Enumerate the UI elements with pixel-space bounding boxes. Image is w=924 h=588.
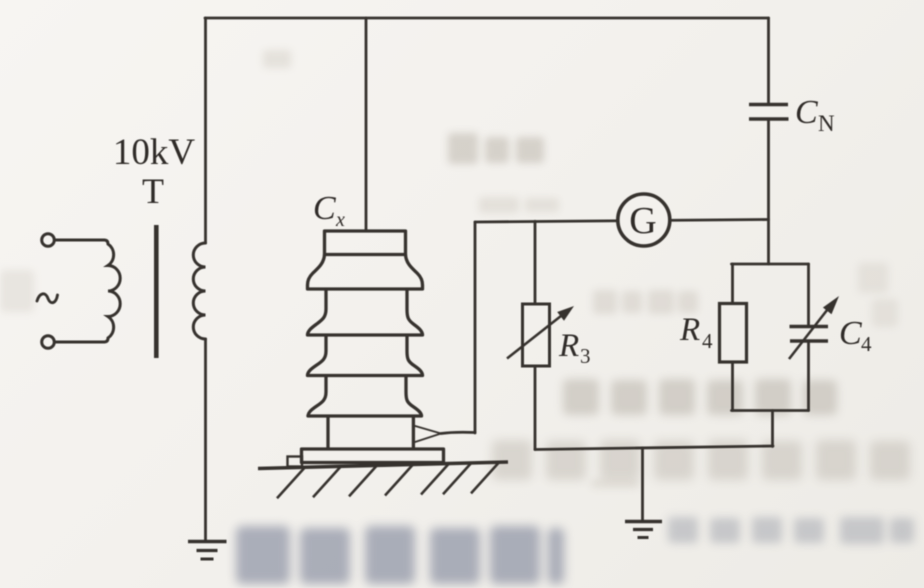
wire: CN bottom plate down through G-wire junction to R4C4 box top — [767, 121, 770, 265]
primary winding — [104, 240, 120, 342]
svg-text:4: 4 — [861, 332, 872, 356]
wire: ground stub below bottom bus — [641, 448, 644, 521]
C4 arrow — [789, 305, 831, 359]
resistor R4 — [720, 304, 747, 363]
wire: right vertical top bus to CN top plate — [767, 18, 770, 103]
svg-text:R: R — [679, 312, 700, 348]
svg-text:N: N — [818, 111, 835, 136]
terminal lower (circle) — [42, 336, 55, 349]
capacitor CN — [749, 105, 789, 120]
wire: bottom bus — [535, 446, 773, 450]
wire: drop from top bus to Cx bushing cap — [365, 18, 368, 231]
ground plane (hatched earth under bushing) — [258, 462, 508, 498]
bushing neck — [326, 418, 329, 450]
wire: transformer secondary to left ground — [204, 339, 207, 541]
bushing base plate — [302, 449, 444, 463]
wire: top bus from left vertical to CN branch — [205, 17, 769, 20]
tap electrode arrow — [414, 426, 442, 443]
test object Cx: bushing — [302, 231, 444, 463]
resistor R3 (variable) — [523, 304, 550, 366]
wire: left vertical from top bus down to transformer secondary — [204, 18, 207, 243]
R3 arrow — [507, 312, 566, 359]
svg-text:4: 4 — [702, 329, 713, 353]
shed 4 — [308, 376, 422, 417]
transformer core — [154, 225, 159, 358]
wire: upper primary lead — [55, 239, 105, 242]
AC source tilde — [37, 294, 58, 303]
wire: R4C4 box bottom rail — [732, 409, 809, 412]
wire: R4 branch lower — [731, 362, 734, 411]
svg-text:R: R — [558, 328, 579, 364]
wire: R3 branch lower — [534, 366, 537, 450]
ground (center, below bottom bus) — [625, 522, 662, 538]
svg-text:G: G — [629, 200, 656, 242]
terminal upper (circle) — [42, 234, 55, 247]
shed 1 — [308, 255, 423, 290]
wire: tap vertical up to galvanometer wire — [474, 222, 477, 433]
wire: R4C4 box top rail — [732, 263, 809, 266]
svg-text:C: C — [839, 315, 862, 352]
bushing cap — [325, 231, 406, 255]
capacitor C4 (variable) — [790, 327, 829, 342]
wire: R4 branch upper — [731, 264, 734, 304]
wire: C4 branch lower — [807, 342, 810, 411]
wire: tap lead from bushing electrode arrow — [441, 432, 475, 433]
svg-text:C: C — [313, 190, 336, 227]
svg-text:10kV: 10kV — [113, 132, 196, 173]
svg-text:3: 3 — [580, 344, 591, 368]
base step (left) — [288, 457, 303, 467]
wire: R3 branch upper — [534, 221, 537, 304]
galvanometer G — [618, 194, 670, 246]
transformer T — [42, 234, 206, 349]
wire: box exit to bottom bus — [771, 411, 774, 447]
shed 2 — [308, 289, 423, 335]
svg-text:x: x — [335, 209, 345, 231]
wire: galvanometer horizontal from tap vertical to right vertical — [475, 220, 769, 223]
wire: C4 branch upper — [807, 264, 810, 326]
svg-text:T: T — [142, 171, 164, 211]
wire: lower primary lead — [55, 341, 105, 344]
secondary winding — [193, 243, 205, 339]
shed 3 — [308, 335, 423, 376]
svg-text:C: C — [795, 94, 818, 131]
ground (left, below transformer) — [188, 542, 227, 560]
